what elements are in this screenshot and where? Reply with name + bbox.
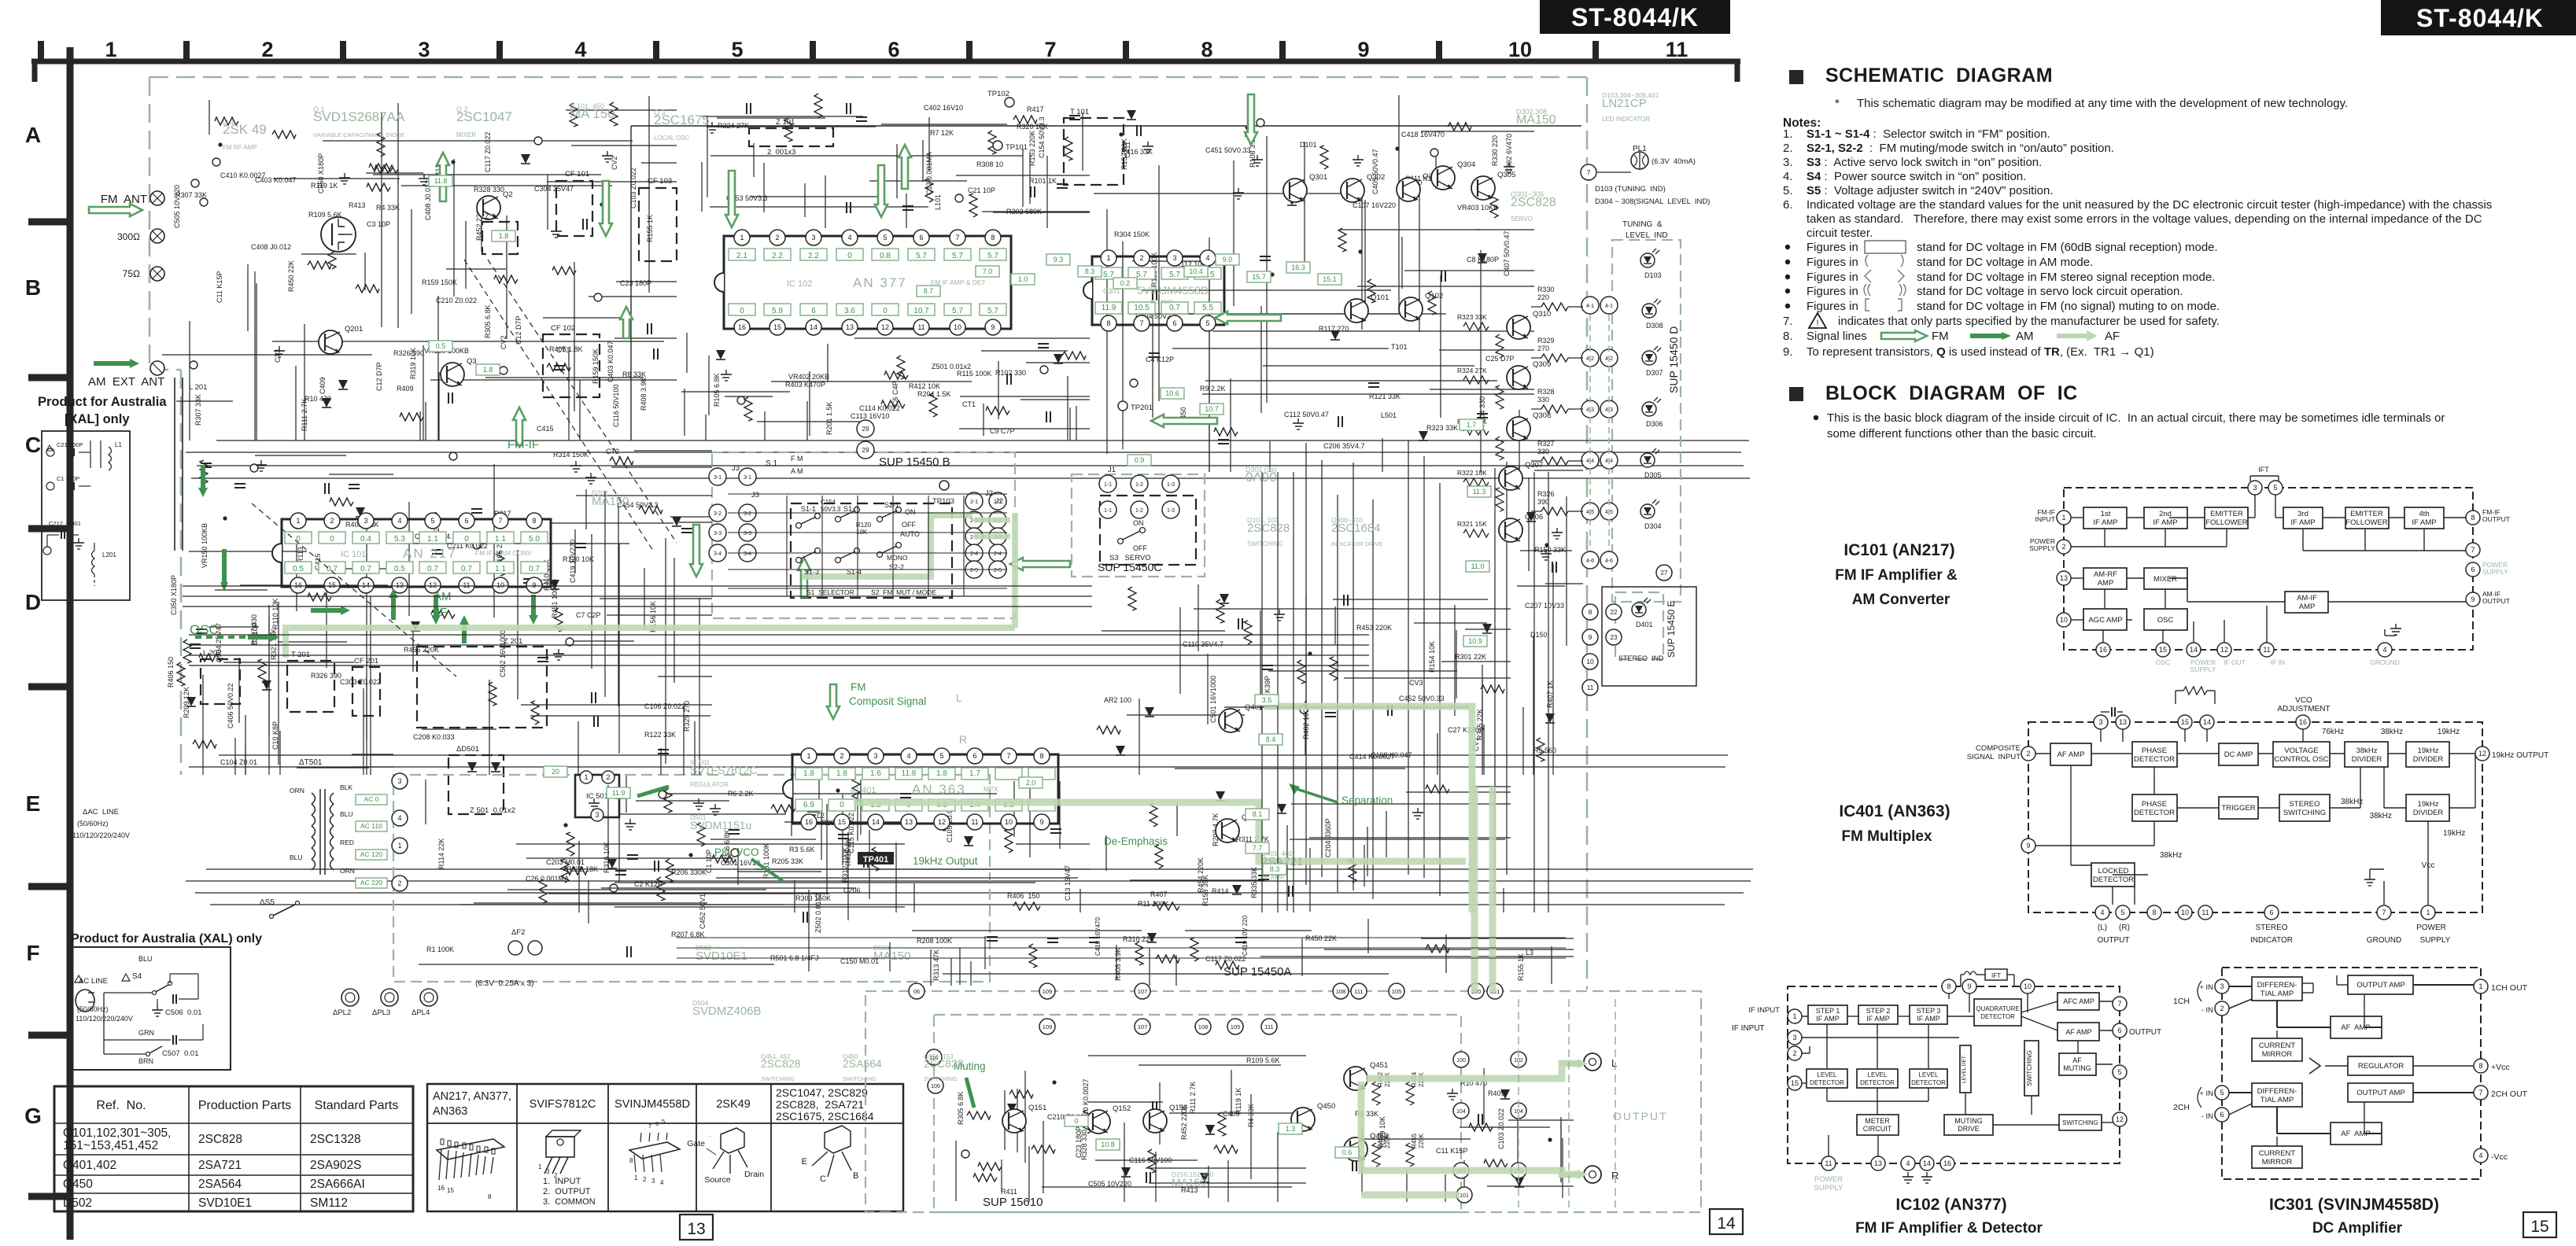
package drawing transistor TO-92 xyxy=(825,1126,851,1153)
svg-text:3: 3 xyxy=(651,1178,655,1185)
svg-text:stand for DC voltage in servo: stand for DC voltage in servo lock circu… xyxy=(1917,285,2183,298)
transistor Q401 xyxy=(1219,709,1242,732)
connector pins 22 23 xyxy=(1606,604,1622,620)
wire xyxy=(681,391,790,393)
svg-text:9: 9 xyxy=(1039,818,1043,826)
svg-text:2.1: 2.1 xyxy=(736,252,747,260)
wire xyxy=(600,598,712,599)
wire xyxy=(1517,585,1565,587)
svg-text:Q450: Q450 xyxy=(63,1178,93,1191)
svg-text:CIRCUIT: CIRCUIT xyxy=(1863,1125,1892,1133)
svg-text:L101: L101 xyxy=(934,194,942,210)
wire xyxy=(516,843,905,845)
voltage box xyxy=(386,562,413,573)
IC102 block SWITCHING xyxy=(2059,1115,2102,1130)
svg-text:16: 16 xyxy=(2299,718,2307,726)
wire xyxy=(634,450,712,452)
wire xyxy=(1082,112,1083,171)
IC102 pin 9 xyxy=(1962,979,1976,993)
stereo ind outer box xyxy=(1602,587,1696,686)
diode xyxy=(356,507,365,517)
section header BLOCK DIAGRAM OF IC xyxy=(1789,387,1803,401)
svg-text:S4: S4 xyxy=(132,972,142,981)
svg-text:R111 2.7K: R111 2.7K xyxy=(301,399,308,431)
svg-text:VARIABLE CAPACITANCE DIODE: VARIABLE CAPACITANCE DIODE xyxy=(313,131,404,138)
wire xyxy=(1088,1101,1163,1103)
wire xyxy=(1146,1167,1306,1169)
FET Q1 xyxy=(321,217,356,252)
IC101 pin 2 xyxy=(2057,540,2071,554)
IC pin 3 xyxy=(1167,250,1183,266)
svg-text:29: 29 xyxy=(862,426,869,433)
page number 15 xyxy=(2523,1212,2556,1237)
svg-text:11.9: 11.9 xyxy=(1102,304,1116,312)
signal arrow AM xyxy=(220,549,228,592)
resistor R452 R454 column xyxy=(1372,1082,1380,1105)
wire xyxy=(889,942,891,971)
svg-text:OUTPUT: OUTPUT xyxy=(2129,1028,2161,1037)
IC101 block EMITTER FOLLOWER xyxy=(2345,507,2389,529)
svg-text:C208 K0.033: C208 K0.033 xyxy=(413,733,455,741)
svg-text:L201: L201 xyxy=(102,551,116,558)
voltage box xyxy=(1161,388,1184,399)
svg-text:16: 16 xyxy=(294,581,302,589)
svg-text:10: 10 xyxy=(1508,38,1532,61)
svg-text:LOCAL OSC: LOCAL OSC xyxy=(654,135,690,142)
svg-text:R326 390: R326 390 xyxy=(393,349,424,357)
IC301 pin 1 xyxy=(2474,979,2488,993)
svg-text:C21 10P: C21 10P xyxy=(968,186,995,194)
svg-text:1.1: 1.1 xyxy=(427,535,438,544)
svg-text:R313 47K: R313 47K xyxy=(932,949,940,981)
wire bus vertical xyxy=(1337,495,1338,892)
svg-text:FM-IF: FM-IF xyxy=(507,438,539,452)
IC101 pin 12 xyxy=(2217,643,2231,657)
svg-text:R323 33K: R323 33K xyxy=(1457,313,1487,321)
svg-text:DETECTOR: DETECTOR xyxy=(2093,876,2134,884)
wire bus group under AN217 xyxy=(183,585,1092,587)
wire xyxy=(1435,152,1437,189)
resistor xyxy=(610,102,618,126)
svg-text:3-3: 3-3 xyxy=(714,531,722,536)
wire xyxy=(821,805,822,860)
svg-text:LEVEL IND: LEVEL IND xyxy=(1626,231,1668,240)
ruler tick xyxy=(340,41,346,63)
wire xyxy=(1333,599,1488,600)
svg-text:2SC828: 2SC828 xyxy=(1511,196,1556,209)
svg-text:8: 8 xyxy=(629,1157,633,1164)
svg-text:R335 33K: R335 33K xyxy=(1250,867,1258,898)
svg-text:INDICATOR: INDICATOR xyxy=(2250,936,2293,945)
svg-text:1: 1 xyxy=(634,1174,638,1181)
svg-text:TRIGGER: TRIGGER xyxy=(2221,804,2255,813)
voltage box xyxy=(1011,274,1035,285)
svg-text:R9 2.2K: R9 2.2K xyxy=(1200,385,1226,393)
row boundary tick xyxy=(28,374,72,382)
bar antenna L201 xyxy=(174,378,175,551)
connector pins 4-x xyxy=(1581,297,1599,314)
svg-text:9: 9 xyxy=(991,323,995,331)
resistor xyxy=(872,847,880,871)
wire xyxy=(1430,389,1534,390)
svg-text:Z 1: Z 1 xyxy=(485,212,496,221)
transistor Q307 xyxy=(1499,466,1522,490)
resistor xyxy=(1367,279,1375,303)
diode xyxy=(1220,594,1229,603)
resistor xyxy=(539,879,547,903)
signal arrow FM xyxy=(725,171,738,227)
svg-text:IF AMP: IF AMP xyxy=(1917,1015,1940,1023)
svg-text:4-6: 4-6 xyxy=(1586,558,1594,564)
svg-text:4: 4 xyxy=(1205,254,1209,262)
svg-text:Q305: Q305 xyxy=(1497,171,1515,179)
svg-text:2-4: 2-4 xyxy=(970,551,978,557)
voltage box xyxy=(285,532,312,544)
wire xyxy=(982,211,1090,212)
connector pin 27 xyxy=(1656,565,1672,581)
svg-text:4-1: 4-1 xyxy=(1586,304,1594,309)
wire xyxy=(950,958,952,986)
svg-text:MA150: MA150 xyxy=(592,495,629,508)
svg-text:R: R xyxy=(959,733,967,746)
ground xyxy=(812,807,814,812)
svg-text:8.: 8. xyxy=(1783,330,1793,343)
diode xyxy=(1121,1167,1131,1177)
capacitor xyxy=(1258,875,1269,876)
svg-text:5: 5 xyxy=(939,752,943,760)
svg-text:0: 0 xyxy=(464,535,469,544)
svg-text:0A90: 0A90 xyxy=(1246,470,1277,485)
svg-text:C6 C4P: C6 C4P xyxy=(891,381,899,406)
svg-text:R110 10K: R110 10K xyxy=(271,599,279,629)
svg-text:D150: D150 xyxy=(1530,631,1548,639)
diode xyxy=(1216,791,1225,801)
IC pin 9 xyxy=(985,319,1001,335)
wire xyxy=(1324,949,1574,950)
signal arrow AM xyxy=(248,632,279,642)
svg-text:R121 33K: R121 33K xyxy=(1369,393,1401,400)
IC pin 6 xyxy=(913,230,929,245)
svg-text:15: 15 xyxy=(1791,1079,1799,1087)
transformer T501 xyxy=(312,793,316,804)
svg-text:F: F xyxy=(26,941,39,965)
svg-text:11: 11 xyxy=(917,323,924,331)
svg-text:DETECTOR: DETECTOR xyxy=(1980,1013,2015,1020)
wire xyxy=(1483,1068,1485,1124)
svg-text:C501 16V1000: C501 16V1000 xyxy=(1209,676,1217,723)
svg-text:2: 2 xyxy=(1139,254,1143,262)
svg-text:6: 6 xyxy=(811,307,816,315)
svg-text:DIVIDER: DIVIDER xyxy=(2413,755,2444,764)
svg-text:C406 50V0.22: C406 50V0.22 xyxy=(227,683,234,728)
svg-text:R3 5.6K: R3 5.6K xyxy=(789,846,815,853)
transistor Q303 xyxy=(1397,178,1420,201)
svg-text:SUP 15450 D: SUP 15450 D xyxy=(1667,326,1680,393)
svg-text:38kHz: 38kHz xyxy=(2381,728,2403,736)
IC body AN 363 xyxy=(792,754,1058,824)
IC301 block diagram dashed border xyxy=(2222,968,2481,1179)
svg-text:0.8: 0.8 xyxy=(880,252,891,260)
svg-text:19kHz: 19kHz xyxy=(2438,728,2460,736)
svg-text:R408 3.9K: R408 3.9K xyxy=(640,377,648,411)
wire bus xyxy=(197,465,1744,466)
IC pin 4 xyxy=(1200,250,1216,266)
wire xyxy=(1127,714,1245,716)
svg-text:SUP 15610: SUP 15610 xyxy=(983,1196,1043,1209)
svg-text:1.8: 1.8 xyxy=(499,232,509,240)
svg-text:13: 13 xyxy=(846,323,854,331)
svg-text:12: 12 xyxy=(2478,750,2486,758)
wire xyxy=(1001,1159,1002,1192)
ground xyxy=(1238,188,1239,193)
wire xyxy=(607,614,712,616)
svg-text:4-1: 4-1 xyxy=(1605,304,1613,309)
capacitor xyxy=(575,543,586,544)
svg-text:FM ANT: FM ANT xyxy=(101,193,147,206)
svg-text:R10 470: R10 470 xyxy=(304,395,331,403)
svg-text:TP101: TP101 xyxy=(1006,143,1028,152)
svg-text:R151 100K: R151 100K xyxy=(762,843,770,879)
svg-text:2SA564: 2SA564 xyxy=(843,1057,882,1070)
diode xyxy=(1145,707,1154,717)
LED D103 xyxy=(1640,253,1655,267)
svg-text:MIXER: MIXER xyxy=(456,131,477,138)
IC102 block STEP 2 IF AMP xyxy=(1858,1005,1898,1024)
wire xyxy=(364,253,366,290)
svg-text:Q101,102,301~305,: Q101,102,301~305, xyxy=(63,1126,171,1140)
voltage box xyxy=(829,768,855,780)
svg-text:COMPOSITE: COMPOSITE xyxy=(1976,744,2021,753)
svg-text:QUADRATURE: QUADRATURE xyxy=(1976,1005,2019,1012)
svg-text:14: 14 xyxy=(810,323,817,331)
IC102 pin 12 xyxy=(2113,1112,2127,1126)
ground xyxy=(725,370,727,374)
svg-text:C206 35V4.7: C206 35V4.7 xyxy=(1323,442,1365,450)
capacitor xyxy=(1069,115,1080,116)
svg-text:Signal lines: Signal lines xyxy=(1807,330,1867,343)
SUP15450E box xyxy=(1615,592,1663,659)
svg-text:CF 103: CF 103 xyxy=(648,177,672,186)
bias network resistors xyxy=(1463,323,1489,330)
svg-text:5.7: 5.7 xyxy=(987,307,998,315)
wire xyxy=(827,344,829,382)
wire xyxy=(751,196,885,197)
transistor Q152 xyxy=(1087,1110,1110,1134)
ruler tick xyxy=(183,41,190,63)
wire xyxy=(1017,1089,1018,1152)
wire xyxy=(913,883,915,912)
resistor R406 150 xyxy=(1013,902,1040,910)
svg-text:2SA666AI: 2SA666AI xyxy=(310,1178,365,1191)
svg-text:R101 1K: R101 1K xyxy=(1029,177,1057,185)
IC pin 6 xyxy=(459,513,474,529)
wire xyxy=(273,178,400,179)
svg-text:2: 2 xyxy=(397,879,401,887)
svg-text:DETECTOR: DETECTOR xyxy=(2134,809,2175,817)
svg-text:C402 16V10: C402 16V10 xyxy=(924,104,963,112)
wire xyxy=(1260,610,1261,710)
svg-text:220K: 220K xyxy=(1418,1134,1425,1148)
svg-text:T101: T101 xyxy=(1391,343,1408,351)
LED D307 xyxy=(1642,351,1656,365)
wire xyxy=(1419,186,1420,332)
svg-text:ΔS5: ΔS5 xyxy=(260,898,275,907)
svg-text:5.7: 5.7 xyxy=(987,252,998,260)
wire xyxy=(578,721,579,775)
IC102 block LEVEL DETECTOR xyxy=(1857,1069,1898,1088)
svg-text:Figures in: Figures in xyxy=(1807,256,1858,269)
svg-text:2SC1684: 2SC1684 xyxy=(1331,522,1381,535)
svg-text:5: 5 xyxy=(2117,1068,2121,1076)
svg-text:C1 10P: C1 10P xyxy=(705,850,713,873)
IC101 pin 15 xyxy=(2156,643,2170,657)
wire xyxy=(808,890,810,971)
svg-text:R322 18K: R322 18K xyxy=(566,865,598,873)
wire xyxy=(566,109,677,111)
svg-text:1-3: 1-3 xyxy=(1167,508,1175,514)
svg-text:DC AMP: DC AMP xyxy=(1150,298,1173,305)
junction xyxy=(1544,543,1548,547)
svg-text:AM-IF: AM-IF xyxy=(2297,594,2317,603)
svg-text:SUP 15450 E: SUP 15450 E xyxy=(1666,601,1677,658)
wire xyxy=(247,264,249,331)
block diagram intro bullet xyxy=(1814,415,1818,420)
svg-text:S1-1 ~ S1-4 : Selector switch: S1-1 ~ S1-4 : Selector switch in “FM” po… xyxy=(1807,127,2050,141)
resistor xyxy=(1097,726,1120,734)
svg-text:C23 180P: C23 180P xyxy=(620,279,651,287)
wire xyxy=(1534,470,1583,471)
svg-text:R406 150: R406 150 xyxy=(167,657,175,688)
svg-text:7: 7 xyxy=(648,1123,651,1130)
svg-text:15: 15 xyxy=(838,818,846,826)
svg-text:15: 15 xyxy=(447,1187,454,1194)
capacitor xyxy=(1046,411,1047,422)
svg-text:16: 16 xyxy=(738,323,746,331)
resistor xyxy=(1083,1110,1091,1134)
note bullet figures-in xyxy=(1785,275,1790,279)
wire xyxy=(1130,879,1264,881)
wire xyxy=(928,117,930,171)
svg-text:R324 27K: R324 27K xyxy=(718,122,749,130)
capacitor C506 xyxy=(172,994,174,1004)
resistor xyxy=(1216,961,1239,969)
svg-text:3: 3 xyxy=(2253,484,2257,492)
svg-text:R409: R409 xyxy=(397,385,414,393)
resistor xyxy=(177,662,185,686)
wire xyxy=(507,889,766,890)
SUP15610 box xyxy=(934,1015,1461,1212)
svg-text:C154: C154 xyxy=(821,499,836,506)
svg-text:R314 150K: R314 150K xyxy=(553,451,589,459)
svg-text:7: 7 xyxy=(498,517,502,525)
svg-text:29: 29 xyxy=(862,447,869,454)
svg-text:270: 270 xyxy=(1537,345,1549,352)
svg-text:5.9: 5.9 xyxy=(772,307,783,315)
voltage box AC xyxy=(356,850,387,860)
wire bus vertical xyxy=(1372,500,1374,899)
svg-text:FOLLOWER: FOLLOWER xyxy=(2205,518,2247,527)
connector xyxy=(250,464,258,472)
transistor Q451 xyxy=(1344,1067,1367,1090)
svg-text:3.6: 3.6 xyxy=(844,307,855,315)
wire xyxy=(397,181,399,328)
svg-text:FM IF Amplifier & Detector: FM IF Amplifier & Detector xyxy=(1855,1220,2043,1237)
signal arrow FM xyxy=(600,181,612,236)
cap C212 xyxy=(61,531,62,539)
wire bus xyxy=(210,904,1725,905)
wire xyxy=(1533,636,1534,775)
wire xyxy=(842,794,843,865)
wire xyxy=(1152,301,1153,418)
connector xyxy=(955,194,963,202)
svg-text:D401: D401 xyxy=(1636,621,1653,629)
ground xyxy=(1357,155,1359,160)
wire xyxy=(189,321,190,441)
diode xyxy=(1116,746,1125,755)
svg-text:IF AMP: IF AMP xyxy=(1866,1015,1890,1023)
svg-text:INPUT: INPUT xyxy=(2035,515,2056,523)
svg-text:R323 33K: R323 33K xyxy=(1426,424,1458,432)
IC401 block 19kHz DIVIDER xyxy=(2406,794,2449,821)
svg-text:SUP 15450C: SUP 15450C xyxy=(1098,561,1161,573)
svg-text:R159 150K: R159 150K xyxy=(422,278,457,286)
resistor xyxy=(697,823,705,846)
junction xyxy=(1119,132,1123,136)
svg-text:9: 9 xyxy=(532,581,536,589)
test point TP102 xyxy=(1005,98,1014,107)
svg-text:9.0: 9.0 xyxy=(1223,256,1233,264)
wire bus group lower xyxy=(677,937,1566,938)
IC pin 2 xyxy=(324,513,340,529)
wire xyxy=(755,868,1090,870)
resistor xyxy=(1135,942,1143,965)
IC pin 12 xyxy=(877,319,893,335)
svg-text:75Ω: 75Ω xyxy=(123,268,140,279)
svg-text:IC 401: IC 401 xyxy=(851,786,876,795)
svg-text:TP401: TP401 xyxy=(863,855,888,864)
wire xyxy=(1067,376,1068,440)
IC pin 2 xyxy=(1134,250,1150,266)
capacitor xyxy=(448,393,449,404)
svg-text:TUNING &: TUNING & xyxy=(1622,220,1663,229)
svg-text:R303 150K: R303 150K xyxy=(795,894,831,902)
wire xyxy=(408,502,410,616)
svg-text:C415: C415 xyxy=(537,425,554,433)
IC102 pin 2 xyxy=(1788,1046,1802,1060)
svg-text:R315 22K: R315 22K xyxy=(1476,709,1484,740)
svg-text:S5 : Voltage adjuster switch: S5 : Voltage adjuster switch in “240V” p… xyxy=(1807,184,2054,197)
svg-text:ΔPL2: ΔPL2 xyxy=(333,1008,351,1017)
wire xyxy=(1149,1182,1306,1184)
voltage box xyxy=(492,230,515,241)
IC301 block AF AMP xyxy=(2331,1123,2382,1145)
wire xyxy=(215,589,268,591)
diode xyxy=(1482,624,1492,633)
svg-text:D502: D502 xyxy=(63,1196,92,1210)
svg-text:3. COMMON: 3. COMMON xyxy=(543,1197,596,1207)
wire xyxy=(1209,252,1210,472)
svg-text:OSC: OSC xyxy=(2157,616,2174,625)
svg-text:AN 363: AN 363 xyxy=(912,782,966,797)
IC pin 6 xyxy=(967,748,983,764)
svg-text:2CH: 2CH xyxy=(2173,1103,2190,1112)
resistor xyxy=(1190,938,1198,961)
IC102 pin 14 xyxy=(1920,1156,1934,1170)
voltage box xyxy=(487,532,514,544)
svg-text:2SK49: 2SK49 xyxy=(716,1098,751,1111)
svg-text:C107 16V220: C107 16V220 xyxy=(1353,201,1396,209)
svg-text:6: 6 xyxy=(1172,319,1176,327)
